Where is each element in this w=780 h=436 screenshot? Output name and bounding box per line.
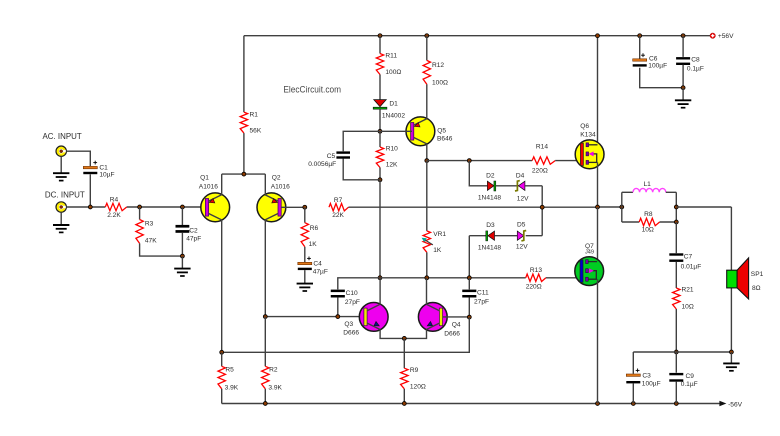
node C2-R3 ground junction	[180, 254, 184, 258]
wire R13 to Q7 gate	[546, 277, 581, 279]
wire C9 row horizontal	[633, 351, 731, 353]
wire output node to L1	[598, 206, 622, 208]
svg-text:Q1: Q1	[200, 174, 209, 181]
node output junction	[596, 205, 600, 209]
node C1 junction	[88, 205, 92, 209]
wire rail to R11	[379, 36, 381, 54]
resistor R8	[622, 211, 677, 233]
svg-text:D5: D5	[517, 222, 526, 229]
node C11 top junction	[467, 276, 471, 280]
svg-text:C6: C6	[649, 56, 658, 63]
node L1 left junction	[620, 205, 624, 209]
node C6 top junction	[638, 34, 642, 38]
node C10 bottom junction	[336, 315, 340, 319]
svg-text:L1: L1	[644, 181, 652, 188]
wire Q4 base	[443, 316, 469, 318]
svg-text:D666: D666	[444, 331, 460, 338]
svg-text:12V: 12V	[516, 243, 528, 250]
svg-text:+56V: +56V	[718, 33, 734, 40]
variable resistor VR1	[422, 231, 447, 254]
node R8 right junction	[674, 220, 678, 224]
svg-text:-56V: -56V	[728, 401, 743, 408]
svg-text:27pF: 27pF	[474, 299, 489, 306]
node Q3 collector junction	[378, 276, 382, 280]
speaker SP1	[727, 258, 764, 299]
wire Q4 emitter	[404, 330, 426, 339]
wire Q3 base row	[265, 316, 363, 318]
wire AC jack to C1	[66, 151, 90, 166]
node R3 junction	[138, 205, 142, 209]
wire D3 branch left	[469, 235, 486, 237]
node Q5 base junction	[378, 129, 382, 133]
wire D3 branch left vertical	[468, 236, 470, 278]
svg-text:R3: R3	[145, 221, 154, 228]
wire R4 to Q1 base	[127, 206, 206, 208]
svg-text:B646: B646	[437, 135, 453, 142]
node R9 bottom junction	[402, 402, 406, 406]
wire R2 bottom	[264, 389, 266, 404]
resistor R9	[401, 338, 426, 390]
wire R11 to D1	[379, 75, 381, 100]
svg-text:R7: R7	[334, 197, 343, 204]
svg-text:10µF: 10µF	[99, 171, 114, 178]
svg-text:R12: R12	[432, 62, 444, 69]
svg-text:R11: R11	[385, 53, 397, 60]
wire main to speaker	[676, 206, 731, 208]
resistor R5	[218, 352, 239, 391]
svg-text:C1: C1	[99, 164, 108, 171]
wire D2 branch right vertical	[541, 186, 543, 236]
wire Q2 collector	[264, 220, 266, 317]
svg-text:1K: 1K	[433, 247, 442, 254]
wire R1 branch vertical	[243, 36, 245, 112]
svg-text:Q2: Q2	[272, 174, 281, 181]
wire emitter tie Q1-Q2	[222, 173, 266, 175]
transistor Q2	[257, 174, 290, 221]
label ElecCircuit.com	[283, 85, 341, 95]
capacitor C9	[669, 352, 697, 388]
node L1 right junction	[674, 205, 678, 209]
resistor R13	[526, 267, 546, 291]
resistor R14	[532, 143, 555, 174]
ground C6-C8	[675, 88, 691, 108]
svg-text:C8: C8	[691, 56, 700, 63]
wire rail to R12	[426, 36, 428, 61]
wire C9 bottom	[675, 381, 677, 403]
node Q4 base junction	[467, 315, 471, 319]
svg-text:D4: D4	[516, 172, 525, 179]
svg-text:10Ω: 10Ω	[642, 226, 654, 233]
svg-text:Q5: Q5	[437, 128, 446, 135]
wire Q5 emitter to R12	[426, 84, 428, 119]
resistor R4	[105, 197, 126, 219]
node C2 junction	[180, 205, 184, 209]
svg-text:12K: 12K	[386, 161, 398, 168]
svg-text:C10: C10	[346, 290, 358, 297]
svg-text:1N4148: 1N4148	[478, 194, 501, 201]
wire -56V bottom rail	[222, 403, 720, 405]
svg-text:K134: K134	[580, 132, 596, 139]
node R12 top junction	[425, 34, 429, 38]
node speaker ground junction	[729, 350, 733, 354]
wire L1 right vertical	[675, 192, 677, 222]
node output-diode junction	[540, 205, 544, 209]
svg-text:R14: R14	[536, 143, 548, 150]
transistor Q7 J49	[575, 243, 604, 285]
wire D2 branch left	[469, 161, 487, 186]
terminal +56V	[710, 33, 734, 40]
node Q2 base junction	[303, 205, 307, 209]
transistor Q1	[199, 174, 230, 221]
wire Q6 source down	[597, 162, 599, 207]
wire DC jack to R4	[66, 206, 105, 208]
wire rail to Q6 drain	[597, 36, 599, 145]
wire Q3 emitter	[380, 330, 404, 339]
wire Q5 base	[380, 130, 412, 132]
svg-text:220Ω: 220Ω	[526, 284, 542, 291]
wire R3 bottom	[140, 243, 183, 256]
transistor Q6 K134	[575, 123, 604, 169]
capacitor C6	[633, 36, 667, 70]
svg-text:C11: C11	[477, 289, 489, 296]
node C9 bottom junction	[674, 402, 678, 406]
svg-text:D2: D2	[486, 173, 495, 180]
svg-text:R13: R13	[530, 267, 542, 274]
resistor R2	[262, 317, 283, 392]
ground C4	[297, 284, 313, 291]
wire C1 to input node	[89, 174, 91, 207]
svg-text:R4: R4	[110, 197, 119, 204]
wire Q2 emitter	[264, 174, 266, 195]
svg-text:R5: R5	[225, 367, 234, 374]
wire Q1 collector	[221, 220, 223, 352]
wire R9 bottom	[403, 389, 405, 404]
node Q6 drain junction	[596, 34, 600, 38]
capacitor C5 branch	[308, 131, 380, 180]
resistor R3	[136, 207, 157, 244]
node Q3-Q4 emitter junction	[402, 336, 406, 340]
svg-text:100Ω: 100Ω	[385, 69, 401, 76]
wire D2 to D4	[496, 185, 519, 187]
svg-text:100µF: 100µF	[642, 381, 661, 388]
svg-text:8Ω: 8Ω	[752, 285, 761, 292]
svg-text:A1016: A1016	[199, 183, 218, 190]
wire D5 right	[526, 235, 543, 237]
svg-text:27pF: 27pF	[345, 299, 360, 306]
svg-text:220Ω: 220Ω	[532, 167, 548, 174]
svg-text:100Ω: 100Ω	[432, 79, 448, 86]
svg-text:1N4002: 1N4002	[382, 112, 405, 119]
svg-text:D1: D1	[389, 100, 398, 107]
wire R14 to Q6 gate	[555, 160, 581, 162]
svg-text:R2: R2	[269, 367, 278, 374]
ground AC input	[53, 156, 69, 180]
capacitor C11	[462, 278, 489, 318]
node C6-C8 ground junction	[681, 86, 685, 90]
wire R10 bottom	[379, 168, 381, 180]
svg-text:AC. INPUT: AC. INPUT	[43, 132, 82, 141]
diode D5 zener	[516, 222, 528, 251]
svg-text:R10: R10	[386, 145, 398, 152]
wire C6 bottom	[640, 68, 683, 88]
svg-text:J49: J49	[585, 250, 594, 256]
node D2 branch junction	[467, 159, 471, 163]
capacitor C7	[669, 253, 701, 270]
svg-text:R1: R1	[250, 112, 259, 119]
svg-text:0.01µF: 0.01µF	[681, 264, 702, 271]
wire VR1 bottom	[426, 252, 428, 277]
svg-text:2.2K: 2.2K	[107, 212, 121, 219]
wire Q4 collector	[426, 278, 428, 305]
node emitter tie junction	[242, 172, 246, 176]
svg-text:3.9K: 3.9K	[225, 384, 239, 391]
wire D4 right	[525, 185, 542, 187]
diode D3	[478, 222, 501, 251]
capacitor C2	[176, 207, 202, 243]
svg-text:R9: R9	[410, 367, 419, 374]
diode D4 zener	[515, 172, 529, 202]
svg-text:47pF: 47pF	[186, 236, 201, 243]
capacitor C3	[626, 352, 660, 388]
svg-text:R6: R6	[310, 225, 319, 232]
capacitor C1	[83, 161, 114, 179]
connector DC input jack	[56, 202, 66, 212]
svg-text:100µF: 100µF	[648, 63, 667, 70]
wire C3 bottom	[632, 383, 634, 403]
svg-text:D666: D666	[343, 329, 359, 336]
capacitor C4	[298, 257, 328, 276]
node R11 top junction	[378, 34, 382, 38]
transistor Q4	[418, 303, 461, 338]
wire C4 bottom	[304, 270, 306, 283]
svg-text:VR1: VR1	[433, 231, 446, 238]
wire L1 left vertical	[621, 192, 623, 222]
svg-text:Q3: Q3	[344, 321, 353, 328]
transistor Q3	[343, 303, 388, 337]
node Q7 source junction	[596, 402, 600, 406]
resistor R10	[376, 145, 398, 168]
svg-text:120Ω: 120Ω	[410, 384, 426, 391]
wire R21 bottom	[675, 309, 677, 352]
node R21 bottom junction	[674, 350, 678, 354]
inductor L1	[622, 181, 677, 192]
svg-text:1K: 1K	[309, 241, 318, 248]
node R10 bottom junction	[378, 178, 382, 182]
wire Q5 to R14	[427, 160, 532, 162]
wire R13 row left	[380, 277, 526, 279]
svg-text:12V: 12V	[517, 195, 529, 202]
svg-text:C2: C2	[189, 227, 198, 234]
svg-text:1N4148: 1N4148	[478, 244, 501, 251]
node C3 bottom junction	[631, 402, 635, 406]
resistor R1	[240, 112, 262, 135]
svg-text:47K: 47K	[145, 237, 157, 244]
svg-text:10Ω: 10Ω	[682, 303, 694, 310]
svg-text:C7: C7	[684, 253, 693, 260]
label AC INPUT	[43, 132, 82, 141]
ground DC input	[53, 212, 69, 232]
svg-text:C5: C5	[327, 153, 336, 160]
svg-text:0.0056µF: 0.0056µF	[308, 161, 336, 168]
wire C7 to R21	[675, 262, 677, 288]
svg-text:R21: R21	[682, 287, 694, 294]
wire node to R10	[379, 131, 381, 147]
wire speaker vertical	[730, 207, 732, 352]
wire C8 bottom	[682, 65, 684, 88]
wire Q1 emitter	[221, 174, 223, 195]
ground output	[723, 352, 739, 371]
resistor R7	[329, 197, 349, 219]
capacitor C8	[676, 36, 704, 73]
wire Q3 collector	[379, 278, 381, 305]
wire +56V top rail	[244, 35, 710, 37]
wire Q5 collector	[426, 144, 428, 161]
wire D1 to node	[379, 109, 381, 131]
wire output node horizontal	[349, 206, 598, 208]
node Q2-Q3 junction	[263, 315, 267, 319]
wire output to Q7 drain	[597, 207, 599, 262]
wire Q7 source down	[597, 279, 599, 403]
wire D3 to D5	[495, 235, 518, 237]
capacitor C10	[331, 278, 380, 317]
node C8 top junction	[681, 34, 685, 38]
svg-text:3.9K: 3.9K	[268, 384, 282, 391]
node VR1 bottom junction	[425, 276, 429, 280]
wire R8 to C7	[675, 222, 677, 253]
svg-text:DC. INPUT: DC. INPUT	[45, 190, 85, 199]
svg-text:A1016: A1016	[271, 183, 290, 190]
node Q5 collector junction	[425, 159, 429, 163]
svg-text:C4: C4	[313, 260, 322, 267]
resistor R21	[673, 287, 694, 311]
svg-text:D3: D3	[486, 222, 495, 229]
svg-text:SP1: SP1	[751, 271, 764, 278]
wire C2 bottom	[181, 233, 183, 256]
terminal -56V	[719, 401, 742, 409]
svg-text:C9: C9	[686, 373, 695, 380]
svg-text:56K: 56K	[250, 128, 262, 135]
svg-text:C3: C3	[642, 373, 651, 380]
svg-text:47µF: 47µF	[313, 268, 328, 275]
transistor Q5	[406, 117, 453, 146]
svg-text:0.1µF: 0.1µF	[681, 381, 698, 388]
svg-text:ElecCircuit.com: ElecCircuit.com	[283, 85, 341, 95]
wire Q4 base to feedback	[222, 317, 470, 352]
node R2 bottom junction	[263, 402, 267, 406]
wire x380 down segment	[379, 180, 381, 278]
diode D1	[373, 100, 405, 120]
connector AC input jack	[56, 146, 66, 156]
svg-text:0.1µF: 0.1µF	[687, 66, 704, 73]
ground C2	[174, 256, 190, 276]
resistor R11	[376, 53, 401, 77]
wire R6 to C4	[304, 247, 306, 262]
wire Q2 base to node	[281, 206, 305, 208]
wire R1 to emitter node	[243, 133, 245, 174]
svg-text:R8: R8	[644, 211, 653, 218]
wire R5 bottom	[221, 389, 223, 404]
wire Q5 collector to VR1	[426, 161, 428, 231]
svg-text:22K: 22K	[332, 212, 344, 219]
resistor R6	[301, 207, 318, 248]
svg-text:Q6: Q6	[580, 123, 589, 130]
diode D2	[478, 173, 501, 202]
svg-text:Q4: Q4	[452, 322, 461, 329]
resistor R12	[423, 60, 448, 86]
node Q1 collector junction	[220, 350, 224, 354]
label DC INPUT	[45, 190, 85, 199]
